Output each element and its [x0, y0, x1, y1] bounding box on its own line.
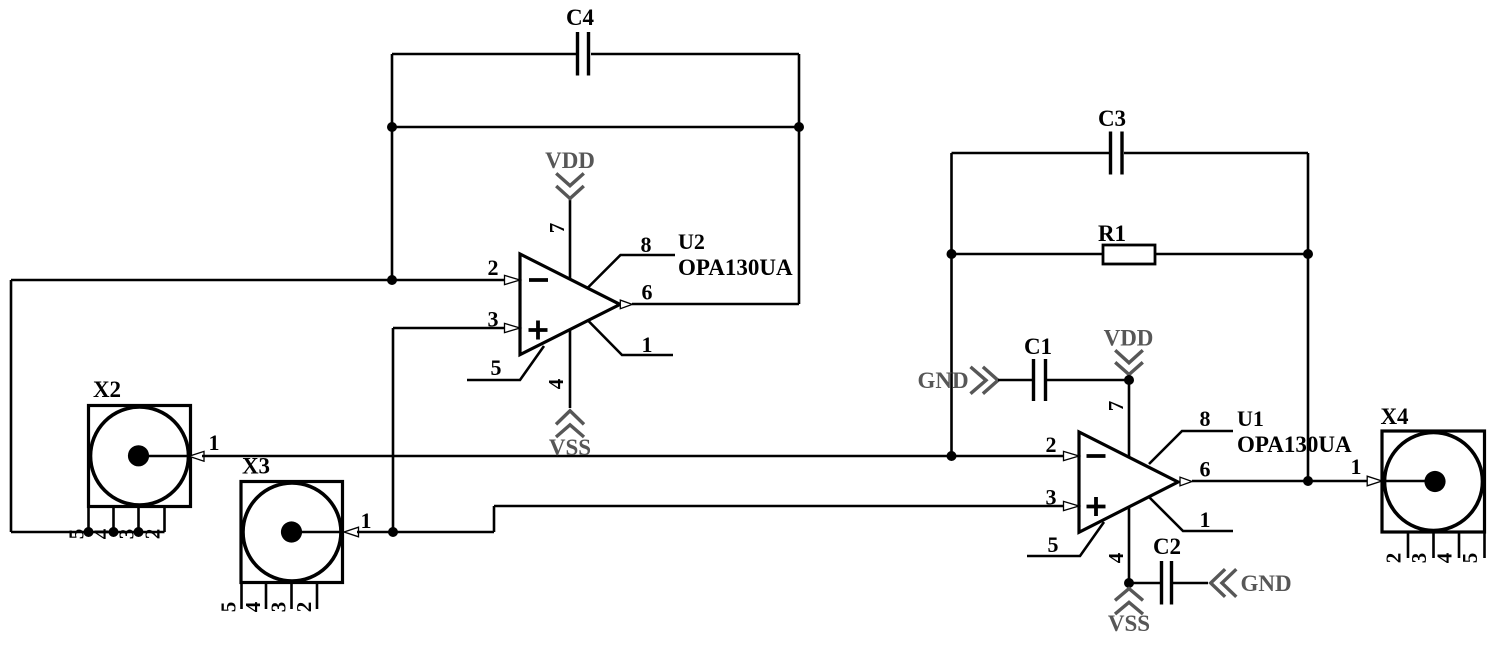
svg-text:X4: X4 [1380, 404, 1409, 429]
wire R1 left [952, 253, 1104, 256]
svg-text:U2: U2 [678, 229, 705, 254]
svg-text:5: 5 [1458, 553, 1482, 564]
X4 pin 3 stub [1432, 532, 1435, 558]
wire parallel feedback horizontal [392, 126, 799, 129]
U2 pin3 arrow [505, 323, 521, 332]
junction on pin2 wire to R1C3 rail [947, 451, 957, 461]
svg-text:4: 4 [1104, 552, 1128, 563]
U1 pin8 stub [1149, 431, 1233, 464]
U1 pin2 arrow [1064, 451, 1080, 460]
op-amp U1 [1079, 406, 1352, 532]
svg-text:VSS: VSS [1108, 611, 1150, 636]
U2 pin4 wire [569, 330, 572, 409]
wire C3 left [952, 152, 1110, 155]
X2 pin 2 stub [163, 506, 166, 532]
svg-text:X2: X2 [93, 377, 121, 402]
svg-text:7: 7 [1104, 401, 1128, 412]
svg-text:1: 1 [1200, 507, 1211, 532]
svg-text:4: 4 [90, 528, 114, 539]
wire C4 top left [392, 53, 577, 56]
X3 pin 3 stub [290, 582, 293, 609]
wire step vertical [493, 506, 496, 532]
power VDD U1 [1104, 326, 1154, 375]
svg-text:6: 6 [1200, 457, 1211, 482]
svg-text:2: 2 [1382, 553, 1406, 564]
svg-text:OPA130UA: OPA130UA [678, 255, 793, 280]
X4 pin 4 stub [1458, 532, 1461, 558]
wire left rail C3R1 [950, 153, 953, 456]
X4 pin1 arrow [1367, 476, 1382, 486]
U2 pin5 stub [467, 346, 544, 380]
junction X2 pin4 [109, 527, 119, 537]
wire pin4 to C2 [1129, 582, 1160, 585]
svg-text:4: 4 [241, 601, 265, 612]
svg-text:1: 1 [1351, 454, 1362, 479]
svg-text:3: 3 [1407, 553, 1431, 564]
X3 pin 5 stub [240, 582, 243, 609]
junction right of feedback horizontal [794, 122, 804, 132]
svg-text:X3: X3 [242, 454, 270, 479]
svg-text:1: 1 [209, 430, 220, 455]
svg-text:7: 7 [545, 223, 569, 234]
junction pin4 C2 VSS [1124, 578, 1134, 588]
svg-text:8: 8 [1200, 406, 1211, 431]
wire X2 to U1 pin2 [202, 455, 1066, 458]
capacitor C4 [566, 5, 595, 76]
U2 pin8 stub [588, 255, 675, 288]
wire C4 top right [591, 53, 799, 56]
wire C1 to VDD junction [1047, 379, 1129, 382]
power VDD U2 [545, 148, 595, 199]
U1 pin1 stub [1149, 497, 1233, 531]
svg-text:3: 3 [267, 602, 291, 613]
wire U2 pin2 input [11, 279, 505, 282]
svg-text:3: 3 [488, 307, 499, 332]
wire GND to C1 [998, 379, 1032, 382]
X4 pin 2 stub [1407, 532, 1410, 558]
svg-text:3: 3 [1046, 485, 1057, 510]
svg-text:3: 3 [115, 529, 139, 540]
power VSS U2 [549, 411, 591, 460]
capacitor C3 [1098, 106, 1126, 175]
wire left rail bottom to X2 pins [11, 531, 165, 534]
connector X4 [1380, 404, 1484, 532]
capacitor C2 [1153, 534, 1181, 605]
svg-text:GND: GND [917, 368, 968, 393]
svg-text:OPA130UA: OPA130UA [1237, 432, 1352, 457]
wire feedback right vertical [798, 54, 801, 304]
X3 pin 4 stub [265, 582, 268, 609]
svg-text:C3: C3 [1098, 106, 1126, 131]
power VSS U1 [1108, 589, 1150, 636]
X2 pin 3 stub [137, 506, 140, 532]
wire U2 output [632, 303, 799, 306]
svg-text:GND: GND [1240, 571, 1291, 596]
resistor R1 [1098, 221, 1155, 264]
svg-text:C4: C4 [566, 5, 595, 30]
svg-text:C1: C1 [1024, 334, 1052, 359]
junction left of feedback horizontal [387, 122, 397, 132]
svg-text:2: 2 [488, 255, 499, 280]
U2 pin7 wire [569, 199, 572, 281]
U1 pin7 wire [1128, 380, 1131, 458]
svg-text:VDD: VDD [1104, 326, 1154, 351]
svg-text:4: 4 [544, 378, 568, 389]
svg-text:1: 1 [642, 332, 653, 357]
svg-text:5: 5 [1048, 532, 1059, 557]
wire X3 to step [357, 531, 494, 534]
connector X3 [241, 454, 343, 583]
wire R1 right [1155, 253, 1308, 256]
svg-text:4: 4 [1433, 552, 1457, 563]
wire left rail vertical [10, 280, 13, 532]
svg-text:5: 5 [65, 529, 89, 540]
wire C2 to GND [1173, 582, 1208, 585]
U1 pin5 stub [1027, 522, 1104, 556]
svg-text:1: 1 [361, 508, 372, 533]
wire to U1 pin3 [494, 505, 1066, 508]
port GND right [1211, 569, 1292, 597]
svg-text:C2: C2 [1153, 534, 1181, 559]
wire right rail C3R1 [1307, 153, 1310, 481]
wire feedback left vertical [391, 54, 394, 280]
X4 pin 5 stub [1483, 532, 1486, 558]
svg-text:8: 8 [641, 232, 652, 257]
svg-text:2: 2 [292, 602, 316, 613]
junction X3 wire [388, 527, 398, 537]
U2 pin2 arrow [505, 275, 521, 284]
wire U2 pin3 input [393, 327, 505, 330]
wire pin3 vertical to X3 [392, 328, 395, 532]
svg-text:VDD: VDD [545, 148, 595, 173]
port GND left [917, 367, 998, 394]
svg-text:VSS: VSS [549, 435, 591, 460]
connector X2 [89, 377, 191, 507]
op-amp U2 [520, 229, 793, 355]
svg-text:6: 6 [642, 280, 653, 305]
wire U1 output [1192, 480, 1368, 483]
U1 output arrow pin6 [1180, 477, 1192, 486]
U1 pin4 wire [1128, 507, 1131, 583]
junction R1 left [947, 249, 957, 259]
X2 pin 4 stub [112, 506, 115, 532]
X2 pin 5 stub [87, 506, 90, 532]
capacitor C1 [1024, 334, 1052, 401]
X3 pin 1 arrow [344, 527, 359, 537]
svg-text:5: 5 [491, 355, 502, 380]
U1 pin3 arrow [1064, 501, 1080, 510]
X2 pin 1 arrow [189, 451, 204, 461]
X3 pin 2 stub [316, 582, 319, 609]
wire C3 right [1124, 152, 1308, 155]
junction VDD pin7 [1124, 375, 1134, 385]
junction R1 right [1303, 249, 1313, 259]
svg-text:U1: U1 [1237, 406, 1264, 431]
junction feedback to pin2 wire [387, 275, 397, 285]
svg-text:2: 2 [1046, 432, 1057, 457]
svg-text:2: 2 [141, 529, 165, 540]
svg-text:R1: R1 [1098, 221, 1126, 246]
U2 output arrow pin6 [620, 300, 632, 309]
svg-text:5: 5 [217, 602, 241, 613]
junction X2 pin3 [134, 527, 144, 537]
junction X2 pin5 [84, 527, 94, 537]
junction output to right rail [1303, 476, 1313, 486]
U2 pin1 stub [588, 321, 673, 356]
